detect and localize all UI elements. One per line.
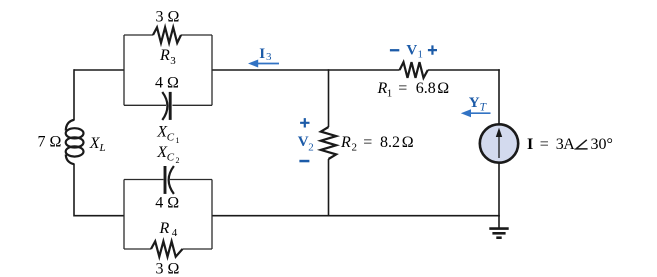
svg-text:7 Ω: 7 Ω bbox=[38, 134, 62, 151]
svg-text:6.8: 6.8 bbox=[416, 80, 436, 97]
resistor R3 bbox=[153, 27, 181, 43]
svg-text:3: 3 bbox=[170, 55, 176, 67]
current arrow I3 bbox=[248, 60, 279, 68]
label minus (V2) bbox=[299, 160, 309, 163]
svg-text:8.2: 8.2 bbox=[380, 134, 400, 151]
wire bottom-left horizontal bbox=[74, 215, 124, 217]
svg-text:I: I bbox=[527, 136, 533, 153]
inductor XL bbox=[66, 120, 84, 164]
svg-text:Ω: Ω bbox=[402, 134, 414, 151]
svg-text:Ω: Ω bbox=[437, 80, 449, 97]
wire top-left horizontal bbox=[74, 69, 124, 71]
wire top middle horizontal bbox=[212, 69, 400, 71]
svg-text:=: = bbox=[398, 80, 407, 97]
resistor R2 bbox=[321, 127, 336, 159]
svg-text:1: 1 bbox=[387, 88, 393, 100]
resistor R1 bbox=[400, 62, 428, 78]
svg-text:C: C bbox=[167, 132, 175, 144]
svg-text:R: R bbox=[340, 134, 351, 151]
wire bottom horizontal bbox=[212, 215, 500, 217]
svg-text:30°: 30° bbox=[591, 136, 613, 153]
svg-text:L: L bbox=[99, 142, 106, 154]
label plus (V2) bbox=[300, 118, 309, 127]
svg-text:A: A bbox=[563, 136, 575, 153]
wire right vertical upper bbox=[498, 69, 500, 124]
capacitor XC1 bbox=[162, 92, 170, 120]
wire right vertical lower bbox=[498, 163, 500, 216]
svg-text:=: = bbox=[363, 134, 372, 151]
angle symbol bbox=[576, 140, 588, 149]
svg-text:3: 3 bbox=[266, 51, 272, 63]
top parallel box frame bbox=[124, 35, 212, 105]
wire left vertical lower bbox=[73, 164, 75, 217]
label minus (V1) bbox=[390, 49, 399, 51]
wire left vertical upper bbox=[73, 69, 75, 120]
admittance arrow YT bbox=[461, 109, 491, 117]
svg-text:I: I bbox=[259, 46, 265, 62]
svg-text:Y: Y bbox=[469, 95, 480, 111]
svg-text:2: 2 bbox=[176, 156, 180, 165]
svg-text:2: 2 bbox=[352, 142, 358, 154]
svg-text:R: R bbox=[159, 220, 170, 237]
svg-text:V: V bbox=[406, 42, 417, 58]
bottom parallel box frame bbox=[124, 180, 212, 250]
label plus (V1) bbox=[428, 45, 437, 54]
svg-text:V: V bbox=[298, 134, 309, 150]
ground bbox=[489, 216, 508, 238]
svg-text:2: 2 bbox=[308, 141, 314, 153]
svg-text:4 Ω: 4 Ω bbox=[155, 195, 179, 212]
svg-text:4: 4 bbox=[172, 227, 178, 239]
resistor R4 bbox=[151, 241, 183, 256]
wire top right horizontal bbox=[428, 69, 500, 71]
current source I bbox=[480, 124, 518, 162]
svg-text:=: = bbox=[540, 136, 549, 153]
svg-text:3 Ω: 3 Ω bbox=[156, 9, 180, 26]
svg-text:1: 1 bbox=[418, 49, 424, 61]
wire middle vertical lower bbox=[328, 159, 330, 217]
svg-text:R: R bbox=[159, 47, 170, 64]
svg-text:3 Ω: 3 Ω bbox=[156, 261, 180, 277]
svg-text:4 Ω: 4 Ω bbox=[155, 74, 179, 91]
svg-text:C: C bbox=[167, 152, 175, 164]
capacitor XC2 bbox=[165, 166, 174, 194]
svg-text:1: 1 bbox=[176, 136, 180, 145]
wire middle vertical upper bbox=[328, 69, 330, 127]
